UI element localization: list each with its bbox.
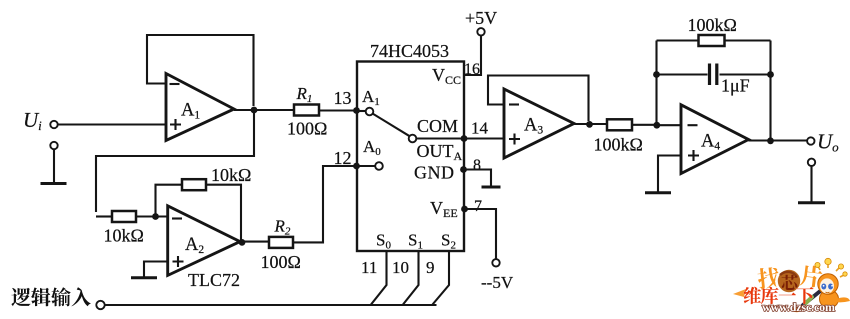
label Vcc <box>432 65 461 87</box>
svg-text:10kΩ: 10kΩ <box>104 226 144 246</box>
watermark orange streak <box>733 289 746 297</box>
wire resistor to A2 inverting node <box>136 215 168 217</box>
svg-text:7: 7 <box>474 198 482 215</box>
node A2 output junction <box>239 239 246 246</box>
resistor 10k ohm A2 feedback <box>182 165 251 190</box>
IC U1 74HC4053 box <box>357 41 464 251</box>
node A3 output junction <box>586 121 593 128</box>
op-amp A3 <box>504 89 574 158</box>
switch pole A0 circle <box>357 162 383 170</box>
wire A3 output <box>574 123 607 125</box>
label S2 <box>441 231 456 252</box>
ground terminal below Uo <box>808 159 815 166</box>
wire pin 7 to -5V <box>465 209 497 259</box>
resistor 10k ohm A2 input <box>96 211 144 246</box>
wire A1 output down to A2 input <box>96 110 254 212</box>
wire A4 noninverting to ground <box>658 156 681 193</box>
node pin 13 <box>334 88 360 114</box>
svg-text:13: 13 <box>334 88 352 108</box>
ground A4 <box>645 191 671 194</box>
resistor R1 100 ohm <box>287 84 327 139</box>
svg-text:16: 16 <box>464 61 480 78</box>
wire A2 output to R2 <box>240 241 269 243</box>
wire R2 to pin 12 <box>293 166 357 242</box>
node A4 inverting input junction <box>653 122 660 129</box>
svg-text:10kΩ: 10kΩ <box>211 165 251 185</box>
svg-text:www.dzsc.com: www.dzsc.com <box>762 300 835 314</box>
svg-text:100Ω: 100Ω <box>261 252 301 272</box>
ground terminal below Ui <box>50 142 57 149</box>
wire terminal to output ground <box>810 166 812 202</box>
node pin 14 <box>461 119 489 142</box>
wire pin 11 S0 <box>361 251 387 305</box>
wire feedback right vertical <box>769 41 771 141</box>
wire capacitor rail <box>657 73 771 75</box>
watermark text zhao (find) <box>757 266 781 290</box>
node A1 output junction <box>251 107 258 114</box>
watermark mascot <box>793 258 850 312</box>
op-amp A4 <box>681 105 749 174</box>
svg-text:14: 14 <box>471 119 489 138</box>
label S1 <box>408 231 423 252</box>
svg-text:8: 8 <box>473 157 481 174</box>
svg-text:100kΩ: 100kΩ <box>688 15 737 35</box>
wire resistor to A4 node <box>632 124 657 126</box>
wire COM to pin 14 <box>416 137 464 139</box>
svg-text:9: 9 <box>426 258 435 277</box>
node A4 output junction <box>767 137 774 144</box>
svg-text:GND: GND <box>414 163 455 183</box>
label A0 pole <box>363 137 381 158</box>
wire A4 output <box>748 139 807 141</box>
node Uo output terminal <box>807 130 839 155</box>
resistor R2 100 ohm <box>261 217 301 273</box>
wire feedback top rail <box>657 39 771 41</box>
ground (input) <box>41 182 67 185</box>
ground (output) <box>798 201 825 204</box>
wire A4 input node up to feedback <box>655 41 657 126</box>
switch wiper A1 to COM <box>373 114 410 137</box>
label GND <box>414 163 455 183</box>
wire terminal to ground <box>53 149 55 183</box>
watermark text weikuyixia (red) <box>744 287 814 305</box>
node Ui input terminal <box>23 108 58 133</box>
svg-text:+5V: +5V <box>465 8 497 28</box>
svg-text:TLC72: TLC72 <box>188 270 240 290</box>
wire pin 14 to A3 noninverting input <box>464 137 504 139</box>
node pin 12 <box>334 148 360 169</box>
node cap left junction <box>653 71 660 78</box>
wire node to A4 inverting input <box>657 124 681 126</box>
node A2 inverting input <box>152 213 159 220</box>
node +5V terminal <box>465 8 497 36</box>
svg-text:COM: COM <box>417 116 458 136</box>
wire A1 feedback loop <box>147 35 254 106</box>
svg-text:10: 10 <box>392 258 409 277</box>
watermark url www.dzsc.com <box>762 300 835 314</box>
label OUTA <box>417 141 463 163</box>
label A1 pole <box>362 87 380 108</box>
svg-text:1μF: 1μF <box>721 76 750 96</box>
resistor 100k ohm between A3 and A4 <box>594 119 643 154</box>
switch pole A1 circle <box>357 108 373 116</box>
wire pin 9 S2 <box>426 251 449 305</box>
wire logic input bus <box>105 304 437 306</box>
pin 16 stub to +5V <box>464 36 481 79</box>
wire A3 feedback loop <box>488 76 589 122</box>
ground A2 <box>131 276 157 279</box>
svg-text:100Ω: 100Ω <box>287 119 327 139</box>
wire feedback to A2 output <box>206 185 241 240</box>
node logic input terminal <box>96 301 104 309</box>
label logic input (Chinese) <box>11 287 90 306</box>
wire pin 10 S1 <box>392 251 419 305</box>
ground (pin 8) <box>482 186 501 189</box>
switch COM circle <box>409 135 417 143</box>
node pin 8 GND <box>460 157 481 174</box>
resistor 100k ohm A4 feedback <box>688 15 737 46</box>
label Vee <box>430 198 458 220</box>
watermark chip logo circle <box>777 269 802 294</box>
watermark text pian (chip) <box>799 264 823 288</box>
svg-text:11: 11 <box>361 258 377 277</box>
wire pin 8 to ground <box>464 170 492 187</box>
op-amp A2 TLC72 <box>168 206 240 290</box>
wire A1 output <box>234 109 294 111</box>
node -5V terminal <box>481 259 514 292</box>
label COM <box>417 116 458 136</box>
svg-text:74HC4053: 74HC4053 <box>370 41 449 61</box>
wire A2 noninverting to ground <box>144 262 168 278</box>
label S0 <box>376 231 391 252</box>
op-amp A1 <box>166 74 234 141</box>
node cap right junction <box>767 71 774 78</box>
wire Ui to A1 noninverting input <box>58 123 165 125</box>
svg-text:100kΩ: 100kΩ <box>594 135 643 155</box>
svg-text:12: 12 <box>334 148 352 168</box>
wire R1 to pin 13 <box>319 109 357 111</box>
svg-text:--5V: --5V <box>481 273 514 292</box>
capacitor C1 1uF <box>710 64 750 96</box>
node pin 7 Vee <box>461 198 482 215</box>
wire A2 feedback up <box>156 185 183 217</box>
